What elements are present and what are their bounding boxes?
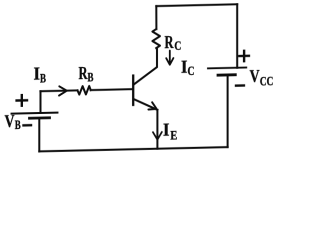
transistor Q1 emitter lead [134, 99, 158, 111]
svg-text:R: R [165, 32, 175, 52]
wire right vertical feed to Vcc [236, 4, 238, 67]
battery VCC short (-) plate [218, 73, 235, 76]
resistor RC [152, 29, 160, 48]
svg-text:B: B [88, 69, 94, 84]
arrowhead emitter [148, 102, 156, 109]
battery VCC long (+) plate [208, 67, 246, 70]
transistor Q1 collector lead [134, 48, 157, 84]
wire VB top stub [40, 91, 42, 113]
arrowhead IE on emitter wire [153, 132, 162, 140]
label VB [5, 111, 22, 133]
wire top [156, 4, 237, 6]
label RC [165, 32, 182, 53]
wire base left segment [40, 89, 77, 92]
label VCC [250, 66, 274, 89]
svg-text:V: V [250, 66, 260, 86]
svg-text:V: V [5, 111, 15, 131]
plus sign of VB [17, 95, 27, 106]
wire Vcc bottom stub [227, 75, 229, 147]
wire base right segment [91, 88, 133, 91]
wire emitter vertical [156, 110, 158, 149]
minus sign of VCC [236, 84, 244, 87]
battery VB long (+) plate [12, 113, 58, 114]
svg-text:I: I [163, 119, 170, 139]
svg-text:C: C [174, 38, 181, 53]
wire VB bottom stub [38, 118, 40, 151]
resistor RB [78, 86, 91, 95]
label IC [181, 56, 195, 78]
minus sign of VB [24, 124, 32, 127]
wire RC top feed [155, 6, 157, 29]
arrowhead IB [59, 86, 67, 95]
svg-text:E: E [170, 127, 177, 142]
battery VB short (-) plate [30, 116, 50, 119]
svg-text:CC: CC [260, 73, 274, 88]
transistor Q1 base bar [132, 76, 134, 105]
label RB [79, 63, 94, 85]
svg-text:C: C [188, 63, 195, 78]
wire bottom [39, 147, 227, 151]
arrow IC [166, 50, 173, 64]
plus sign of VCC [239, 51, 249, 62]
svg-text:B: B [40, 70, 46, 85]
label IB [34, 63, 47, 85]
label IE [163, 119, 177, 142]
svg-text:B: B [15, 117, 21, 132]
